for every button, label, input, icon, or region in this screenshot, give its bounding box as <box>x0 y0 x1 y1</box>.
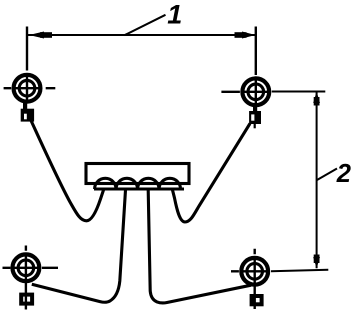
arrowhead top of dimension 2 <box>313 92 320 106</box>
extension line bottom for dimension 2 <box>271 270 328 272</box>
pulley top-left <box>4 27 56 102</box>
arrowhead left of dimension 1 <box>29 32 52 39</box>
wire from top-left clamp to block <box>31 121 104 221</box>
pulley bottom-right <box>231 249 268 309</box>
extension line top for dimension 2 <box>272 91 326 93</box>
wire from top-right clamp to block <box>173 124 251 223</box>
clamp bottom-right (open square) <box>252 296 262 304</box>
scallop 1 <box>95 178 116 189</box>
scallop 2 <box>116 178 137 189</box>
pulley bottom-left <box>3 246 59 310</box>
svg-text:2: 2 <box>336 160 351 188</box>
clamp top-right <box>249 105 261 124</box>
clamp bottom-left (open square) <box>21 295 32 304</box>
dimension line 1 (horizontal, top) <box>28 34 256 36</box>
dimension line 2 (vertical, right) <box>316 92 318 269</box>
arrowhead right of dimension 1 <box>235 32 256 39</box>
leader line to label 2 <box>317 169 337 181</box>
scallop 3 <box>138 178 159 189</box>
svg-text:1: 1 <box>167 0 182 30</box>
luminaire block (rectangle) <box>86 164 189 184</box>
line below top-right clamp <box>254 124 256 128</box>
leader line to label 1 <box>125 15 166 35</box>
scallop 4 <box>159 178 180 189</box>
clamp top-left <box>21 102 34 122</box>
pulley top-right <box>221 27 269 106</box>
arrowhead bottom of dimension 2 <box>313 255 320 269</box>
wire from block to bottom-right pulley <box>148 190 251 303</box>
baseline under block <box>94 187 184 190</box>
wire from block to bottom-left pulley <box>32 190 126 302</box>
